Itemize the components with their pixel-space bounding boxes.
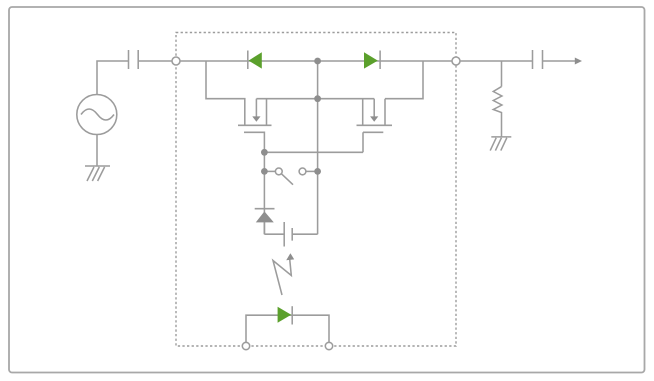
wire (output arrow): [543, 60, 577, 62]
transistor M2 (right MOSFET): [357, 99, 393, 153]
node (output port circle): [452, 57, 460, 65]
wire (M2 drain to main line): [385, 61, 423, 125]
ESD strike arrow: [273, 253, 294, 295]
diode D4 (bottom, green): [278, 306, 293, 324]
wire (left shunt column): [263, 152, 265, 234]
AC source V1: [77, 95, 117, 135]
output arrowhead: [575, 58, 582, 65]
battery B1 (bias cell): [284, 222, 292, 247]
diode D1 (series, left, green): [248, 51, 262, 70]
junction (switch left): [261, 168, 268, 175]
wire (tee to resistor): [501, 61, 503, 87]
switch S1: [264, 168, 317, 185]
diode D3 (shunt, gray): [255, 209, 275, 235]
wire (shunt bottom link): [264, 233, 317, 235]
wire (center node to M1 source): [256, 98, 317, 100]
node (input port circle): [172, 57, 180, 65]
wire (left branch to M1 drain): [206, 61, 245, 125]
wire (gate link M1-M2): [264, 151, 363, 153]
transistor M1 (left MOSFET): [238, 99, 272, 153]
wire (main RF line inside box): [180, 60, 452, 62]
diode D2 (series, right, green): [364, 51, 380, 70]
capacitor C1 (input DC block): [129, 50, 139, 69]
junction (gate link / left column): [261, 149, 268, 156]
wire (cap to input port): [138, 60, 172, 62]
wire (output port to load tee): [460, 60, 533, 62]
junction (main line / center column): [314, 58, 321, 65]
wire (bottom diode loop): [246, 315, 329, 342]
junction (source bus / center column): [314, 95, 321, 102]
node (bottom port right circle): [325, 342, 332, 349]
ground (load): [490, 137, 511, 151]
capacitor C2 (output DC block): [533, 50, 543, 69]
node (bottom port left circle): [242, 342, 249, 349]
wire (center node to M2 source): [318, 98, 375, 100]
wire (center shunt column): [317, 61, 319, 234]
ground (source): [85, 166, 110, 181]
wire (source top to input cap): [97, 61, 129, 95]
junction (switch right): [314, 168, 321, 175]
wire (source bottom to ground): [96, 135, 98, 167]
dashed boundary box: [176, 33, 456, 347]
resistor R1 (load): [493, 87, 502, 137]
